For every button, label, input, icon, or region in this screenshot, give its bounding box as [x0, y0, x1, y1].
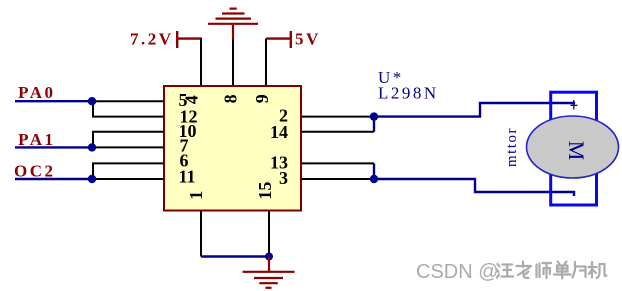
svg-text:9: 9 [252, 94, 272, 103]
wire pin 12 [92, 116, 164, 118]
svg-text:4: 4 [182, 95, 202, 104]
svg-text:5V: 5V [295, 30, 321, 49]
ground GND bottom [243, 257, 295, 288]
power symbol 5V [266, 31, 291, 48]
wire pin 14 [301, 131, 374, 133]
node junction OC2 [88, 175, 96, 183]
svg-text:OC2: OC2 [14, 162, 56, 181]
svg-text:1: 1 [186, 191, 206, 200]
wire 7.2V to pin 4 [200, 39, 202, 86]
wire pin 1 down [200, 211, 202, 257]
wire net PA1 [15, 146, 90, 148]
wire pin 13 [301, 162, 374, 164]
wire pin 2 [301, 116, 374, 118]
svg-text:PA0: PA0 [18, 83, 55, 102]
svg-text:L298N: L298N [378, 84, 439, 103]
svg-text:M: M [564, 141, 589, 161]
wire pin 6 [92, 162, 164, 164]
wire pin 7 [90, 146, 164, 148]
wire pin 11 [90, 178, 164, 180]
wire branch PA0 down [92, 101, 94, 116]
wire to motor + [374, 103, 575, 117]
wire pin 15 down [268, 211, 270, 257]
wire to motor - [374, 179, 574, 196]
svg-text:8: 8 [221, 94, 241, 103]
wire 5V to pin 9 [265, 39, 267, 86]
svg-text:15: 15 [255, 182, 275, 200]
svg-text:11: 11 [179, 166, 196, 186]
motor terminal + [571, 100, 578, 110]
wire branch pin14 up [373, 117, 375, 132]
node junction motor+ [370, 112, 378, 120]
node junction PA1 [88, 143, 96, 151]
wire top ground to pin 8 [232, 40, 234, 87]
wire branch PA1 up [92, 132, 94, 148]
power symbol 7.2V [177, 31, 202, 48]
watermark chinese glyphs [497, 262, 607, 279]
node junction motor- [370, 175, 378, 183]
motor rotor ellipse [527, 116, 619, 178]
node junction PA0 [88, 97, 96, 105]
svg-text:PA1: PA1 [18, 130, 55, 149]
svg-text:3: 3 [279, 168, 288, 188]
wire branch OC2 up [92, 163, 94, 179]
node junction bottom [265, 253, 273, 261]
wire bottom net [201, 255, 269, 257]
svg-text:CSDN @: CSDN @ [416, 261, 499, 283]
svg-text:14: 14 [270, 122, 288, 142]
wire net PA0 [15, 100, 90, 102]
IC U1 L298N body [164, 86, 301, 211]
motor M1 body rectangle [551, 92, 597, 205]
wire pin 3 [301, 178, 374, 180]
wire pin 10 [92, 131, 164, 133]
ground GND top (inverted earth symbol) [208, 9, 258, 40]
wire net OC2 [15, 178, 90, 180]
svg-text:mttor: mttor [504, 127, 520, 167]
wire pin 5 [90, 100, 164, 102]
wire branch pin13 down [373, 163, 375, 179]
svg-text:7.2V: 7.2V [130, 30, 174, 49]
